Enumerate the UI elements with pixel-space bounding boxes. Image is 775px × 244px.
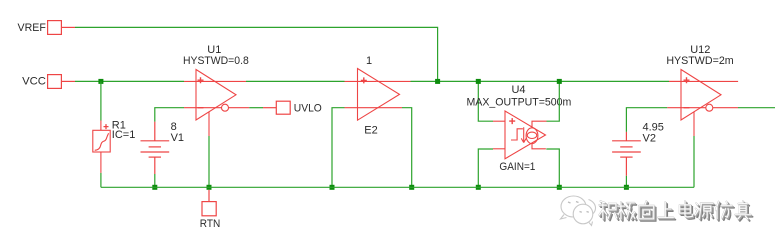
node junction VREF drop xyxy=(435,79,440,84)
svg-text:U4: U4 xyxy=(511,84,525,96)
wire E2 out- to rail xyxy=(402,108,412,188)
svg-text:UVLO: UVLO xyxy=(294,102,322,114)
wire R1 top xyxy=(100,81,102,120)
node junction VCC/R1 xyxy=(98,79,103,84)
svg-text:IC=1: IC=1 xyxy=(112,129,136,141)
svg-text:VCC: VCC xyxy=(22,76,46,88)
wire U4 out+ up xyxy=(547,81,560,121)
node junction U4 out+ xyxy=(557,79,562,84)
svg-text:RTN: RTN xyxy=(200,218,221,230)
port VCC xyxy=(22,75,75,89)
svg-text:VREF: VREF xyxy=(18,22,47,34)
wire V2 bottom xyxy=(625,176,627,188)
svg-text:GAIN=1: GAIN=1 xyxy=(499,161,535,173)
resistor R1 xyxy=(93,121,110,173)
wire U1 out to E2 in xyxy=(246,80,345,82)
node junction V1/rail xyxy=(152,185,157,190)
wire VREF net xyxy=(75,27,438,80)
svg-text:V2: V2 xyxy=(643,132,656,144)
svg-text:HYSTWD=0.8: HYSTWD=0.8 xyxy=(183,55,249,67)
wire V1 top to U1 minus xyxy=(155,108,184,122)
node junction E2 in-/rail xyxy=(330,185,335,190)
svg-text:1: 1 xyxy=(366,55,372,67)
svg-text:HYSTWD=2m: HYSTWD=2m xyxy=(666,55,733,67)
port UVLO xyxy=(263,101,322,114)
node junction RTN xyxy=(207,185,212,190)
op-amp U1 xyxy=(184,70,249,137)
wire U1 out to UVLO xyxy=(249,107,263,109)
vcvs E2 xyxy=(345,69,411,121)
node junction V2/rail xyxy=(624,185,629,190)
wire U4 in+ drop xyxy=(478,81,493,121)
svg-text:MAX_OUTPUT=500m: MAX_OUTPUT=500m xyxy=(467,96,572,108)
node junction U4 in+ xyxy=(476,79,481,84)
watermark logo xyxy=(561,196,596,226)
wire E2 in- from rail xyxy=(332,108,345,188)
wire U1 bottom pin xyxy=(208,136,210,187)
svg-text:V1: V1 xyxy=(171,132,184,144)
limiter U4 xyxy=(493,111,547,159)
wire U4 in- rise xyxy=(478,149,493,187)
wire E2 out to U12 xyxy=(411,80,670,82)
battery V1 xyxy=(141,122,170,174)
wire into U12 plus xyxy=(669,80,681,82)
wire U12 bottom pin xyxy=(693,136,695,187)
wire U4 out- down xyxy=(546,149,559,187)
wire R1 bottom to rail xyxy=(100,173,102,187)
wire V2 top to U12 minus xyxy=(626,108,667,132)
battery V2 xyxy=(612,132,641,176)
svg-text:E2: E2 xyxy=(364,125,377,137)
port VREF xyxy=(18,21,76,35)
wire U12 out xyxy=(738,107,775,109)
wire VCC to U1 xyxy=(75,80,184,82)
node junction U4 in-/rail xyxy=(476,185,481,190)
port RTN xyxy=(200,190,221,230)
node junction E2 out-/rail xyxy=(409,185,414,190)
node junction U4 out-/rail xyxy=(557,185,562,190)
op-amp U12 xyxy=(667,70,738,137)
wire ground rail xyxy=(101,186,694,188)
wire V1 bottom xyxy=(154,174,156,187)
